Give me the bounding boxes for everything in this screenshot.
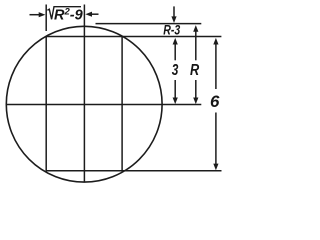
arrowhead top dim left (points right) xyxy=(39,12,46,17)
wire horizontal center line xyxy=(6,104,201,106)
wire dimR shaft lower xyxy=(195,80,197,99)
arrowhead dim3 bottom (points down) xyxy=(173,98,178,105)
svg-text:R2-9: R2-9 xyxy=(54,6,83,23)
wire rect left edge upper extension xyxy=(45,5,47,32)
wire bottom chord line xyxy=(46,170,222,172)
arrowhead dim6 top (points up) xyxy=(213,38,218,45)
wire dim6 shaft lower xyxy=(215,113,217,165)
wire top tangent line A xyxy=(96,23,202,25)
wire top dim right arrow shaft xyxy=(91,13,99,15)
wire rect right edge xyxy=(121,37,123,171)
arrowhead dimR bottom (points down) xyxy=(193,98,198,105)
svg-text:R: R xyxy=(190,62,200,79)
wire dim3 upper shaft xyxy=(174,43,176,60)
svg-text:3: 3 xyxy=(172,62,179,79)
arrowhead R-3 (points down) xyxy=(171,16,176,23)
svg-text:6: 6 xyxy=(210,92,220,111)
wire top dim left arrow shaft xyxy=(30,14,41,16)
wire R-3 down arrow shaft xyxy=(173,6,175,18)
circle xyxy=(6,26,162,182)
wire dimR shaft upper xyxy=(195,30,197,60)
wire dim6 shaft upper xyxy=(215,43,217,89)
wire top chord line B xyxy=(46,36,222,38)
radical sign of sqrt(R^2-9) xyxy=(47,7,81,20)
svg-text:R-3: R-3 xyxy=(163,22,180,37)
wire vertical centerline xyxy=(83,5,85,182)
wire rect left edge xyxy=(45,37,47,172)
arrowhead top dim right (points left) xyxy=(85,12,92,17)
arrowhead dimR top (points up) xyxy=(193,25,198,32)
arrowhead dim6 bottom (points down) xyxy=(213,164,218,171)
wire dim3 lower shaft xyxy=(174,80,176,99)
arrowhead dim3 top (points up) xyxy=(173,38,178,45)
